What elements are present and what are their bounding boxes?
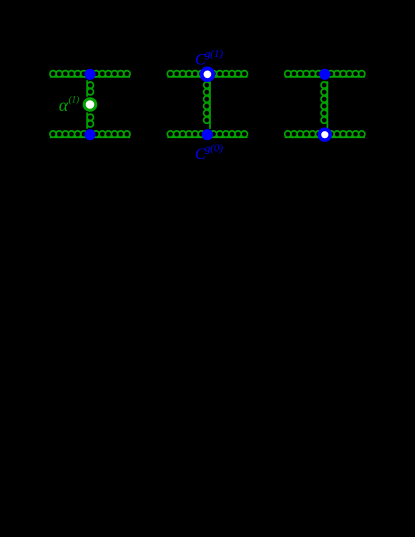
vertex: C^g(1) coefficient (blue ring, white core) — [202, 69, 214, 81]
gluon line: vertical exchange of middle diagram — [204, 81, 210, 129]
vertex: top gluon junction (blue dot) — [85, 69, 96, 80]
vertex: C^g(0) coefficient (blue dot) — [202, 129, 213, 140]
svg-text:(1): (1) — [69, 95, 80, 105]
vertex: alpha^(1) effective coupling (green ring, white core) — [84, 99, 96, 111]
gluon line: bottom propagator of left diagram — [50, 131, 130, 137]
gluon line: top propagator of left diagram — [50, 71, 130, 77]
vertex: ringed bottom vertex (blue ring, white core) — [319, 129, 330, 140]
gluon line: lower vertical exchange of left diagram — [87, 112, 93, 128]
svg-text:α: α — [59, 95, 69, 115]
gluon line: bottom propagator of right diagram — [285, 131, 365, 137]
gluon line: upper vertical exchange of left diagram — [87, 80, 93, 96]
gluon line: vertical exchange of right diagram — [321, 81, 327, 129]
svg-text:g(0): g(0) — [205, 142, 224, 154]
gluon line: bottom propagator of middle diagram — [167, 131, 247, 137]
vertex: top gluon junction (blue dot) — [319, 69, 330, 80]
label: C^g(0) (blue, below middle diagram) — [195, 142, 223, 163]
gluon line: top propagator of right diagram — [285, 71, 365, 77]
vertex: bottom gluon junction (blue dot) — [85, 129, 96, 140]
gluon line: top propagator of middle diagram — [167, 71, 247, 77]
label: alpha^(1) (green, left diagram middle vertex) — [59, 95, 79, 116]
svg-text:g(1): g(1) — [205, 48, 224, 60]
label: C^g(1) (blue, above middle diagram) — [195, 48, 223, 69]
